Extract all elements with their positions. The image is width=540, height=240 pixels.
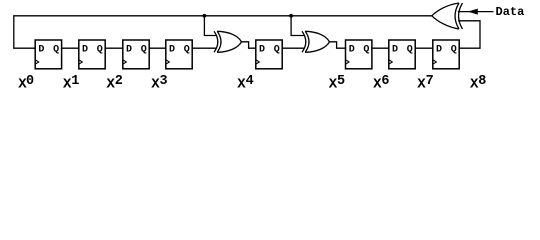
svg-text:Q: Q xyxy=(451,45,457,56)
flip-flop X0 xyxy=(35,40,61,69)
svg-text:8: 8 xyxy=(478,74,486,89)
svg-text:D: D xyxy=(349,45,355,56)
svg-text:D: D xyxy=(436,45,442,56)
flip-flop X5 xyxy=(346,40,372,69)
wire Q0 to D1 xyxy=(62,47,79,49)
label X1 xyxy=(63,74,79,93)
wire Q5 to D6 xyxy=(372,47,389,49)
label X3 xyxy=(151,74,167,93)
svg-text:7: 7 xyxy=(426,74,434,89)
wire Q2 to D3 xyxy=(149,47,166,49)
svg-text:3: 3 xyxy=(160,74,168,89)
junction node tap2 xyxy=(289,14,293,18)
label X6 xyxy=(373,74,389,93)
svg-text:0: 0 xyxy=(26,74,34,89)
svg-text:Q: Q xyxy=(363,45,369,56)
junction node tap1 xyxy=(203,14,207,18)
label X8 xyxy=(470,74,486,93)
wire tap stub dot1 to XOR1 upper input xyxy=(204,16,216,36)
svg-text:Q: Q xyxy=(407,45,413,56)
wire XOR2 output to D5 xyxy=(330,42,346,48)
svg-text:Q: Q xyxy=(141,45,147,56)
svg-text:Q: Q xyxy=(274,45,280,56)
wire XOR1 output to D4 xyxy=(242,42,256,48)
svg-text:D: D xyxy=(392,45,398,56)
label X0 xyxy=(18,74,34,93)
wire top feedback loop xyxy=(14,16,432,48)
flip-flop X3 xyxy=(166,40,192,69)
svg-text:Q: Q xyxy=(53,45,59,56)
wire Q3 to XOR1 lower input xyxy=(192,47,216,49)
wire tap stub dot2 to XOR2 upper input xyxy=(291,16,304,36)
wire Q6 to D7 xyxy=(415,47,433,49)
label X4 xyxy=(237,74,253,93)
wire Data line xyxy=(459,11,493,13)
svg-text:D: D xyxy=(38,45,44,56)
label X7 xyxy=(417,74,433,93)
flip-flop X1 xyxy=(79,40,105,69)
svg-text:1: 1 xyxy=(71,74,79,89)
svg-text:6: 6 xyxy=(381,74,389,89)
wire Q7 up to XOR3 lower input xyxy=(459,21,480,48)
svg-text:D: D xyxy=(169,45,175,56)
svg-text:D: D xyxy=(259,45,265,56)
svg-text:2: 2 xyxy=(115,74,123,89)
label X2 xyxy=(107,74,123,93)
flip-flop X2 xyxy=(123,40,149,69)
wire Q1 to D2 xyxy=(105,47,123,49)
svg-text:Data: Data xyxy=(496,5,525,19)
xor gate U2 xyxy=(302,31,330,52)
label X5 xyxy=(329,74,345,93)
flip-flop X7 xyxy=(433,40,459,69)
xor gate U3 (mirrored, feedback combiner) xyxy=(432,3,463,29)
svg-text:D: D xyxy=(82,45,88,56)
svg-text:Q: Q xyxy=(97,45,103,56)
svg-text:5: 5 xyxy=(337,74,345,89)
svg-text:Q: Q xyxy=(184,45,190,56)
svg-text:D: D xyxy=(126,45,132,56)
arrow Data input xyxy=(468,9,478,15)
xor gate U1 xyxy=(214,31,242,52)
flip-flop X6 xyxy=(389,40,415,69)
flip-flop X4 xyxy=(256,40,282,69)
svg-text:4: 4 xyxy=(246,74,254,89)
wire Q4 to XOR2 lower input xyxy=(282,47,304,49)
